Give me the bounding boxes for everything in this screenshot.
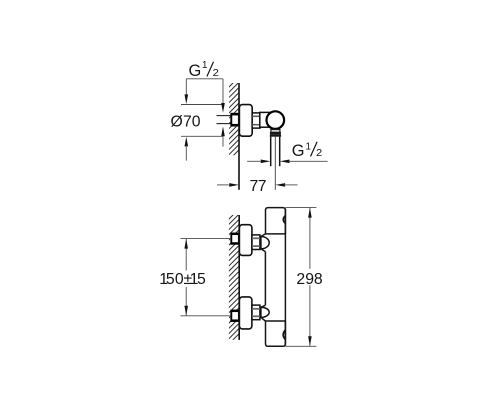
dimension G 1/2 (outlet pipe): arrows at y=161.3	[247, 160, 327, 164]
supply pipe stub in wall (top view)	[217, 116, 232, 124]
dimension 150±15: extension lines	[180, 238, 231, 240]
horn diagonal upper-top	[261, 234, 266, 237]
svg-text:G: G	[189, 62, 202, 80]
svg-text:1: 1	[306, 142, 311, 153]
pipe centerline extension	[274, 137, 276, 190]
svg-text:2: 2	[316, 148, 322, 159]
body right edge	[284, 209, 286, 346]
horn diagonal lower-top	[261, 305, 266, 307]
lower wall fitting square (bottom view)	[231, 311, 239, 321]
label G 1/2 (top)	[189, 60, 219, 80]
bottom outlet arc detail on right edge	[283, 330, 285, 339]
horn diagonal lower-bottom	[261, 317, 266, 321]
division line upper	[265, 233, 285, 235]
top cap	[266, 208, 286, 234]
dimension G 1/2 top: bracket line	[186, 78, 223, 80]
body left edge middle	[264, 252, 266, 306]
escutcheon rosette (top view)	[239, 105, 252, 137]
shower outlet pipe	[271, 137, 280, 167]
dimension 150±15: dimension line and arrows	[184, 239, 188, 316]
svg-text:298: 298	[296, 271, 323, 288]
label 298	[295, 269, 325, 286]
outlet collar below handle	[270, 130, 281, 137]
dimension Ø70: extension lines	[181, 104, 223, 106]
bottom cap	[266, 321, 286, 346]
division line lower	[265, 320, 285, 322]
svg-text:Ø70: Ø70	[171, 113, 201, 130]
svg-text:2: 2	[213, 68, 219, 79]
valve body cylinder (top view)	[260, 112, 271, 127]
svg-text:150±15: 150±15	[159, 271, 206, 288]
lower escutcheon (bottom view)	[239, 297, 252, 329]
upper union nut (bottom view)	[252, 235, 260, 250]
dimension 298: extension lines	[285, 207, 316, 209]
label 150±15	[158, 271, 207, 288]
upper escutcheon (bottom view)	[239, 225, 252, 256]
wall hatch (bottom view)	[224, 204, 244, 349]
upper union cone/dome	[261, 237, 269, 249]
wall supply fitting square (top view)	[231, 114, 239, 125]
dimension Ø70: arrows at x=186.3	[185, 79, 189, 161]
lower union nut (bottom view)	[252, 305, 260, 320]
dimension 298: dimension line and arrows	[308, 208, 312, 346]
mixer body outline	[261, 208, 286, 347]
svg-text:1: 1	[202, 60, 207, 71]
svg-text:G: G	[292, 142, 305, 160]
top outlet arc detail on right edge	[283, 216, 285, 224]
lower union cone/dome	[261, 307, 269, 317]
svg-text:77: 77	[249, 178, 266, 195]
horn diagonal upper-bottom	[261, 249, 266, 252]
union nut (top view)	[252, 113, 260, 128]
wall hatch (top view)	[224, 72, 244, 165]
thermostat handle circle (top view)	[267, 111, 285, 129]
label G 1/2 (right)	[292, 142, 322, 160]
dimension G 1/2 (wall fitting): arrows at x=223	[221, 79, 225, 147]
wall face line (top view)	[238, 83, 240, 190]
upper wall fitting square (bottom view)	[231, 234, 239, 244]
wall face line (bottom view)	[238, 215, 240, 340]
dimension 77: arrows at y=184.9	[217, 183, 298, 187]
